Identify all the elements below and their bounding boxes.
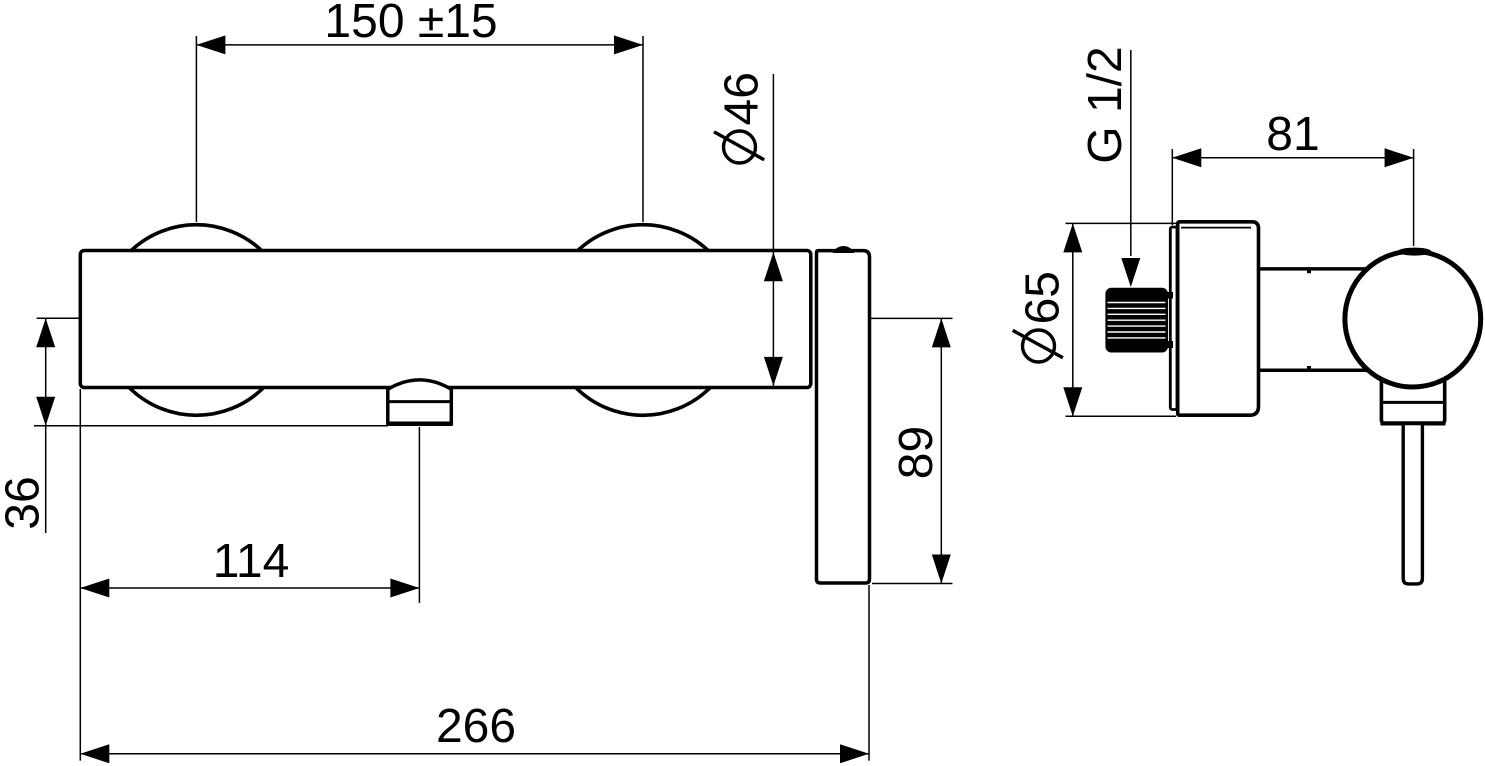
body top line (side view) [1259, 267, 1367, 271]
knob tab bottom [1167, 341, 1173, 348]
dim 266: left extension line [79, 389, 81, 761]
dim 81: dimension line [1172, 157, 1413, 159]
svg-text:81: 81 [1266, 108, 1319, 161]
dim 81: left extension line [1171, 149, 1173, 225]
dim Ø65: dimension line [1072, 223, 1074, 416]
knurl stripe 4 [1108, 319, 1166, 321]
dim 266: right extension line [868, 585, 870, 761]
escutcheon circle right (front view) [548, 225, 739, 416]
circle top dome (side view) [1398, 248, 1432, 256]
lever hub block (side view) [1381, 375, 1444, 424]
dim 36: up arrow [36, 318, 55, 347]
dim 266: left arrow [80, 744, 109, 763]
lever handle (front view) [817, 251, 870, 583]
svg-text:46: 46 [716, 72, 769, 125]
knurl stripe 1 [1108, 302, 1166, 304]
escutcheon back flange sliver (side view) [1170, 227, 1177, 410]
dim Ø65: down arrow [1063, 387, 1082, 416]
dim 114: right extension line [418, 427, 420, 603]
dim 36: label [0, 476, 50, 529]
body bottom line (side view) [1259, 369, 1367, 373]
G 1/2 leader arrow [1121, 258, 1140, 287]
dim 89: label [890, 426, 943, 479]
knurl stripe 7 [1108, 337, 1166, 339]
dim 114: dimension line [80, 587, 419, 589]
dim Ø65: label digits [1017, 271, 1070, 324]
svg-text:89: 89 [890, 426, 943, 479]
mixer body bar (front view) [80, 251, 811, 388]
G 1/2 leader line [1130, 50, 1132, 256]
svg-text:266: 266 [436, 700, 516, 753]
joint nub top [1307, 271, 1311, 274]
plate inner top line [1181, 227, 1251, 229]
dim Ø46: label diameter symbol [724, 131, 756, 163]
svg-text:G 1/2: G 1/2 [1079, 46, 1132, 163]
dim 89: dimension line [940, 318, 942, 583]
hub bottom thick edge [1381, 421, 1446, 425]
svg-text:65: 65 [1017, 271, 1070, 324]
dim 81: right extension line [1413, 149, 1415, 246]
dim Ø46: bottom arrow [764, 357, 783, 386]
outlet fitting (front view) [388, 380, 452, 424]
knurl stripe 6 [1108, 331, 1166, 333]
dim 150 ±15: dimension line [196, 44, 643, 46]
dim 150 ±15: right extension line [642, 36, 644, 222]
dim Ø46: dimension line [772, 74, 774, 386]
knurled connector knob (side view) [1105, 288, 1168, 353]
joint nub bottom [1307, 366, 1311, 369]
dim 36: dimension line with tail [45, 318, 47, 533]
handle top dome (front view) [834, 247, 854, 253]
outlet inner line [389, 400, 451, 403]
escutcheon circle left (front view) [101, 225, 292, 416]
dim 266: dimension line [80, 753, 869, 755]
dim 266: right arrow [840, 744, 869, 763]
outlet bottom thick edge [387, 421, 452, 426]
dim 36: top extension line (bar centerline) [37, 317, 80, 319]
svg-text:114: 114 [213, 535, 290, 588]
svg-text:150 ±15: 150 ±15 [324, 0, 497, 48]
dim Ø46: label digits [716, 72, 769, 125]
handle hub circle (side view) [1345, 251, 1481, 387]
hub inner line [1381, 401, 1445, 404]
dim 36: bottom extension line [34, 425, 388, 427]
dim Ø65: label diameter symbol [1023, 330, 1055, 362]
dim 150 ±15: right arrow [614, 35, 643, 54]
dim 89: up arrow [932, 318, 951, 347]
dim Ø65: top extension line [1066, 222, 1177, 224]
G 1/2 label [1079, 46, 1132, 163]
lever rod (side view) [1403, 424, 1422, 584]
dim 81: left arrow [1172, 148, 1201, 167]
dim 89: down arrow [932, 555, 951, 584]
dim 36: down arrow [36, 397, 55, 426]
escutcheon plate (side view) [1178, 222, 1259, 415]
dim 114: right arrow [390, 579, 419, 598]
dim 89: bottom extension line [872, 583, 953, 585]
dim 89: top extension line [871, 317, 953, 319]
knurl stripe 3 [1108, 313, 1166, 315]
dim Ø46: top arrow [764, 252, 783, 281]
dim 150 ±15: left extension line [195, 36, 197, 222]
dim Ø65: bottom extension line [1066, 415, 1177, 417]
knob tab top [1167, 292, 1173, 299]
svg-text:36: 36 [0, 476, 50, 529]
dim 150 ±15: left arrow [196, 35, 225, 54]
knurl stripe 2 [1108, 307, 1166, 309]
dim Ø65: up arrow [1063, 223, 1082, 252]
dim 81: right arrow [1385, 148, 1414, 167]
knurl stripe 5 [1108, 325, 1166, 327]
dim 114: left arrow [80, 579, 109, 598]
